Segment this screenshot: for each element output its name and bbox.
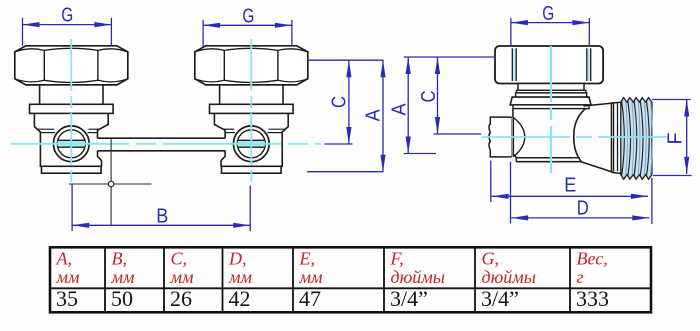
svg-text:G,: G,: [482, 249, 500, 269]
svg-text:Вес,: Вес,: [577, 249, 608, 269]
dimension E line: [492, 195, 648, 197]
right view body right waist arc: [574, 109, 586, 162]
centerline vertical valve 2: [250, 39, 252, 187]
flange of valve 1: [30, 104, 114, 113]
svg-text:E: E: [564, 175, 576, 197]
threaded male end: [621, 98, 652, 180]
dimension B extension lines: [71, 184, 73, 231]
neck cylinder of valve 2: [220, 85, 283, 104]
dimension A left bottom extension line: [307, 171, 383, 173]
table outer border: [50, 247, 651, 312]
right view cylinder before thread: [611, 103, 613, 172]
svg-text:дюймы: дюймы: [391, 267, 445, 287]
right view neck ring 2: [516, 90, 586, 93]
hex nut chamfer arcs of valve 2: [195, 48, 308, 52]
svg-text:F,: F,: [390, 249, 404, 269]
neck cylinder of valve 1: [40, 85, 103, 104]
svg-text:3/4”: 3/4”: [481, 286, 519, 311]
dimension A right top extension line: [404, 56, 496, 58]
svg-text:мм: мм: [299, 267, 323, 287]
dimension C right bottom extension line: [434, 133, 482, 135]
thread ridge lines: [622, 101, 625, 177]
svg-text:3/4”: 3/4”: [390, 286, 428, 311]
svg-text:г: г: [577, 267, 584, 287]
dimension F line: [686, 100, 688, 174]
dimension F top extension line: [652, 99, 691, 101]
node junction circle: [108, 181, 114, 187]
svg-text:333: 333: [576, 286, 609, 311]
right view outlet cone bottom line: [581, 162, 614, 173]
dimension D line: [511, 217, 649, 219]
port inner circle of valve 2: [237, 130, 265, 158]
right view neck ring 3: [516, 93, 587, 97]
centerline horizontal left drawing: [11, 143, 321, 145]
svg-text:дюймы: дюймы: [482, 267, 536, 287]
svg-text:мм: мм: [170, 267, 194, 287]
body step band of valve 2: [269, 128, 286, 130]
drain hole leader horizontal wire: [69, 183, 152, 185]
dimension G of valve 2 extension lines: [202, 20, 204, 47]
svg-text:42: 42: [229, 286, 251, 311]
table header/value divider: [50, 287, 651, 289]
right view neck ring 1: [518, 84, 584, 91]
svg-text:A,: A,: [56, 249, 73, 269]
valve body of valve 1: [34, 113, 108, 166]
dimension E extension lines: [490, 161, 492, 203]
bottom plate of valve 2: [222, 166, 282, 173]
svg-text:B: B: [156, 205, 168, 227]
port outer circle of valve 2: [233, 126, 269, 162]
svg-text:47: 47: [299, 286, 321, 311]
svg-text:C: C: [329, 96, 351, 108]
dimension G right extension lines: [510, 18, 512, 45]
svg-text:мм: мм: [228, 267, 252, 287]
svg-text:F: F: [664, 133, 686, 145]
table column dividers: [104, 247, 106, 312]
port inner circle of valve 1: [57, 130, 85, 158]
dimension B line: [72, 224, 250, 226]
drain hole leader vertical wire: [110, 138, 112, 225]
right view port bore bulge arc: [513, 118, 524, 157]
right view nut facet lines: [511, 48, 513, 81]
valve body of valve 2: [214, 113, 288, 166]
hex nut facet lines of valve 2: [223, 50, 225, 80]
centerline vertical valve 1: [70, 39, 72, 187]
svg-text:G: G: [542, 3, 554, 25]
dimension G of valve 1 line: [23, 24, 112, 26]
svg-text:26: 26: [170, 286, 192, 311]
dimension G of valve 2 line: [203, 24, 292, 26]
svg-text:мм: мм: [111, 267, 135, 287]
bottom plate of valve 1: [42, 166, 102, 173]
dimension G of valve 1 extension lines: [22, 18, 24, 46]
right view left port body: [489, 117, 512, 157]
right view port attach face: [511, 117, 513, 157]
right view nut slot cyan fills: [512, 49, 516, 81]
svg-text:B,: B,: [112, 249, 128, 269]
hex nut of valve 1: [15, 46, 128, 85]
dimension C left bottom extension line: [324, 143, 352, 145]
port outer circle of valve 1: [53, 126, 89, 162]
dimension G right line: [511, 22, 589, 24]
dimension C right line: [437, 57, 439, 134]
centerline vertical right view: [550, 46, 552, 173]
port slot band of valve 2: [238, 141, 265, 147]
centerline horizontal right view: [482, 136, 667, 138]
svg-text:мм: мм: [56, 267, 80, 287]
hex nut facet lines of valve 1: [43, 50, 45, 80]
hex nut of valve 2: [195, 46, 308, 85]
right view body left edge below port: [514, 155, 516, 158]
manifold pipe between valve 1 and valve 2: [97, 137, 225, 139]
right view outlet cone top line: [584, 103, 614, 106]
dimension F bottom extension line: [653, 175, 692, 177]
dimension A left line: [382, 60, 384, 172]
dimension C left line: [348, 60, 350, 144]
right view flange second step: [513, 105, 589, 109]
right view body left edge above port: [512, 109, 514, 118]
dimension A right bottom extension line: [404, 153, 436, 155]
svg-text:E,: E,: [299, 249, 316, 269]
svg-text:D: D: [577, 198, 589, 220]
svg-text:A: A: [388, 103, 410, 116]
svg-text:G: G: [242, 5, 254, 27]
port slot band of valve 1: [58, 141, 85, 147]
svg-text:G: G: [61, 5, 73, 27]
svg-text:C: C: [418, 91, 440, 103]
flange of valve 2: [210, 104, 294, 113]
right view flange: [510, 97, 591, 105]
svg-text:A: A: [363, 109, 385, 122]
svg-text:50: 50: [111, 286, 133, 311]
svg-text:D,: D,: [228, 249, 247, 269]
svg-text:C,: C,: [171, 249, 188, 269]
body step band of valve 1: [37, 128, 54, 130]
dimension D left extension line: [510, 162, 512, 224]
svg-text:35: 35: [56, 286, 78, 311]
right view body base band: [516, 157, 580, 159]
dimension A right line: [407, 57, 409, 154]
right view hex nut: [495, 46, 603, 84]
hex nut chamfer arcs of valve 1: [15, 48, 128, 52]
dimension C left top extension line: [308, 59, 384, 61]
